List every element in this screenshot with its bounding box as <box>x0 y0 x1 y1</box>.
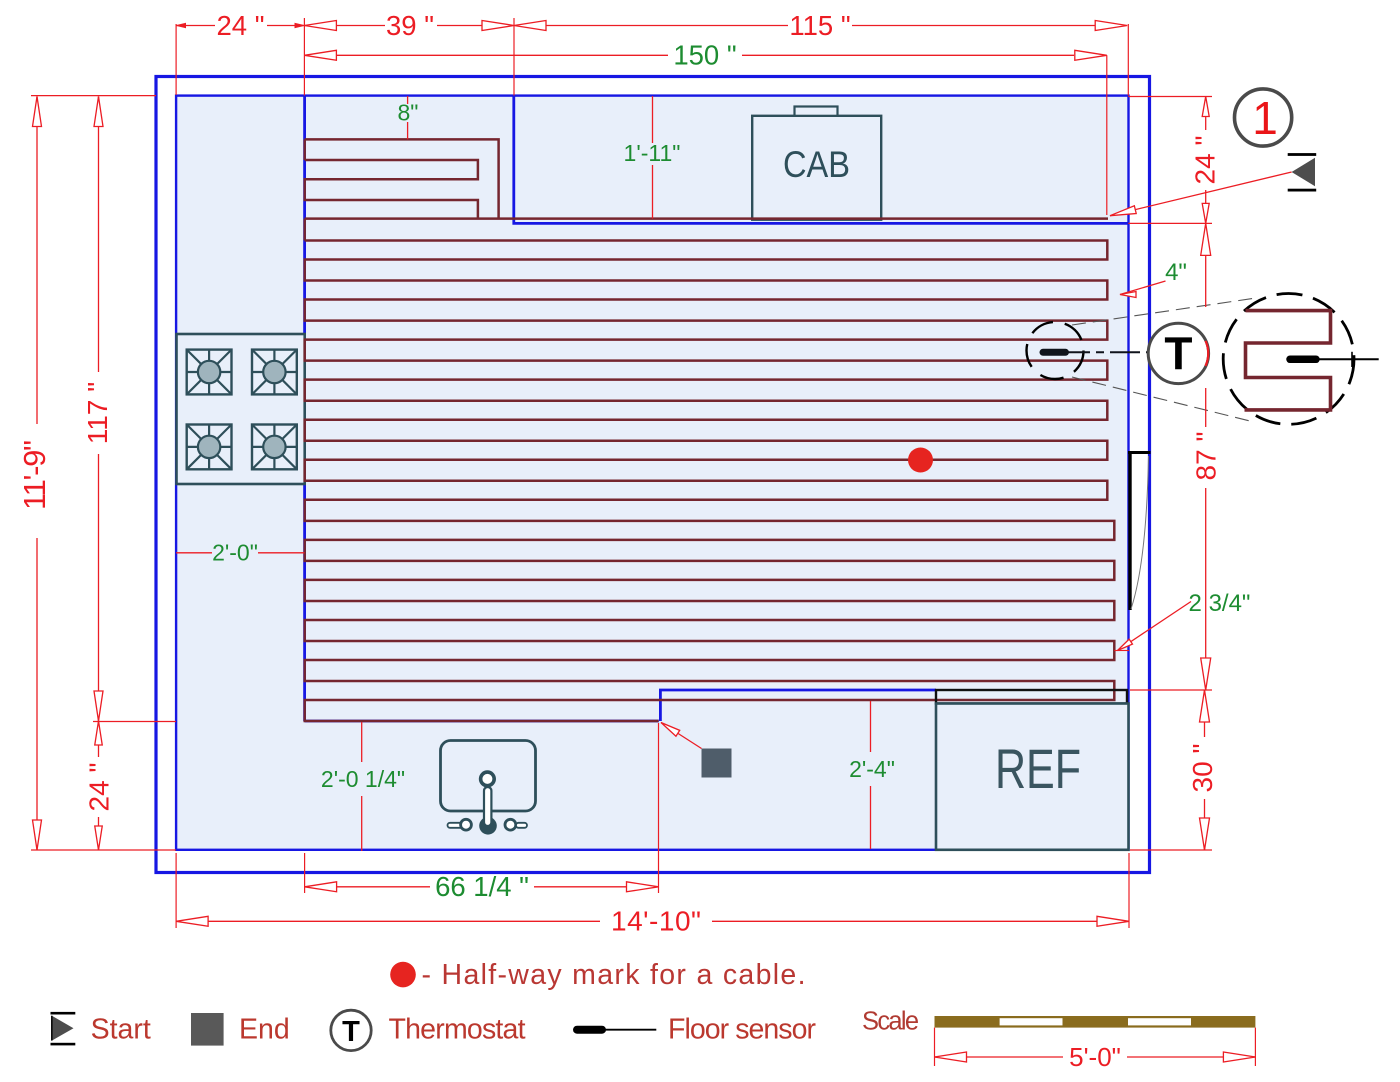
start leader line <box>1110 172 1292 216</box>
stove burner 4 <box>252 425 297 470</box>
svg-text:24 ": 24 " <box>1190 136 1221 185</box>
dimension 115 inch top <box>514 10 1127 41</box>
door leaf <box>1128 453 1131 611</box>
dimension 87 inch <box>1191 223 1222 690</box>
legend end symbol <box>191 1013 224 1046</box>
svg-text:5'-0": 5'-0" <box>1069 1042 1121 1072</box>
dim extension lines bottom <box>176 723 1129 928</box>
floor sensor symbol <box>1043 349 1154 356</box>
dimension 24 inch left <box>84 721 115 850</box>
svg-text:2'-0": 2'-0" <box>212 540 258 566</box>
stove burner 3 <box>187 425 232 470</box>
door swing arc <box>1131 456 1149 609</box>
svg-text:- Half-way mark for a cable.: - Half-way mark for a cable. <box>422 959 806 991</box>
svg-text:8": 8" <box>398 100 419 126</box>
heating cable serpentine <box>305 241 1115 722</box>
door jamb <box>1128 451 1151 454</box>
svg-text:REF: REF <box>995 737 1081 800</box>
svg-text:T: T <box>1164 328 1192 380</box>
svg-text:150 ": 150 " <box>673 40 736 71</box>
legend start symbol <box>51 1012 76 1046</box>
label 2 3/4 inch <box>1114 590 1250 651</box>
svg-text:1: 1 <box>1252 92 1278 144</box>
svg-text:Floor sensor: Floor sensor <box>668 1014 817 1046</box>
sink <box>441 741 536 835</box>
detail sensor <box>1290 352 1379 367</box>
dimension 8 inch <box>398 96 419 139</box>
cabinet CAB outline <box>752 107 881 220</box>
svg-text:End: End <box>239 1014 290 1046</box>
svg-text:2'-0 1/4": 2'-0 1/4" <box>321 766 405 792</box>
dimension 39 inch top <box>304 10 514 41</box>
svg-text:24 ": 24 " <box>84 763 115 812</box>
start marker symbol <box>1288 153 1317 191</box>
detail leader dashed lines <box>1072 298 1256 421</box>
dimension 1ft11 <box>624 96 681 219</box>
scale label <box>862 1008 919 1036</box>
dim extension lines top <box>176 18 1128 215</box>
legend thermostat symbol <box>331 1010 371 1050</box>
svg-text:39 ": 39 " <box>386 10 434 41</box>
svg-text:Start: Start <box>91 1014 151 1046</box>
heated area boundary <box>305 96 1128 722</box>
dim extension lines left <box>31 96 176 850</box>
legend thermostat label <box>389 1014 526 1046</box>
room floor fill <box>176 96 1129 850</box>
dimension 2ft0qtr <box>321 722 405 851</box>
svg-text:24 ": 24 " <box>217 10 265 41</box>
end marker square <box>702 749 732 778</box>
detail cable <box>1245 311 1331 410</box>
dimension 30 inch <box>1187 690 1218 850</box>
stove outline <box>177 334 305 484</box>
svg-text:11'-9": 11'-9" <box>17 440 52 510</box>
room wall rectangle <box>176 96 1128 850</box>
svg-text:T: T <box>342 1016 360 1048</box>
stove burner 1 <box>187 350 232 395</box>
svg-text:2'-4": 2'-4" <box>849 756 895 782</box>
dimension 117 inch <box>82 97 113 722</box>
svg-text:87 ": 87 " <box>1191 432 1222 481</box>
svg-text:66 1/4 ": 66 1/4 " <box>435 871 529 902</box>
dim extension lines right <box>1128 97 1212 851</box>
dimension 24 inch right <box>1190 97 1221 224</box>
svg-text:Scale: Scale <box>862 1008 919 1036</box>
heating cable start section <box>305 139 1108 240</box>
end leader line <box>661 723 702 749</box>
counter edge above REF <box>936 690 1127 704</box>
cabinet CAB label <box>783 144 850 185</box>
half-way mark dot <box>908 448 933 473</box>
detail circle <box>1223 294 1354 425</box>
refrigerator REF label <box>995 737 1081 800</box>
dimension 11ft9 <box>17 97 52 851</box>
legend half-way mark <box>390 959 805 991</box>
svg-text:2 3/4": 2 3/4" <box>1189 590 1251 617</box>
legend floor sensor label <box>668 1014 817 1046</box>
stove burner 2 <box>252 350 297 395</box>
dimension 150 inch <box>304 40 1106 71</box>
scale dimension 5ft0 <box>935 1028 1256 1072</box>
refrigerator REF outline <box>936 704 1129 850</box>
outer wall rectangle <box>156 77 1150 873</box>
svg-text:4": 4" <box>1165 259 1187 286</box>
svg-text:30 ": 30 " <box>1187 744 1218 793</box>
svg-text:14'-10": 14'-10" <box>611 906 701 937</box>
svg-text:Thermostat: Thermostat <box>389 1014 526 1046</box>
svg-text:CAB: CAB <box>783 144 850 185</box>
detail number 1 circle <box>1235 89 1292 146</box>
dimension 14ft10 <box>176 906 1129 937</box>
scale bar <box>935 1016 1256 1028</box>
legend start label <box>91 1014 151 1046</box>
dimension 24 inch top <box>176 10 304 41</box>
svg-text:1'-11": 1'-11" <box>624 140 681 166</box>
legend floor sensor symbol <box>577 1026 656 1034</box>
dimension 2ft0 <box>176 540 305 566</box>
dimension 2ft4 <box>849 701 895 849</box>
svg-text:115 ": 115 " <box>789 10 850 41</box>
thermostat circle T <box>1148 323 1208 383</box>
dimension 66 1/4 inch <box>305 871 659 902</box>
legend end label <box>239 1014 290 1046</box>
svg-text:117 ": 117 " <box>82 382 113 444</box>
floor sensor detail circle on plan <box>1027 322 1084 379</box>
label 4 inch <box>1120 259 1187 298</box>
